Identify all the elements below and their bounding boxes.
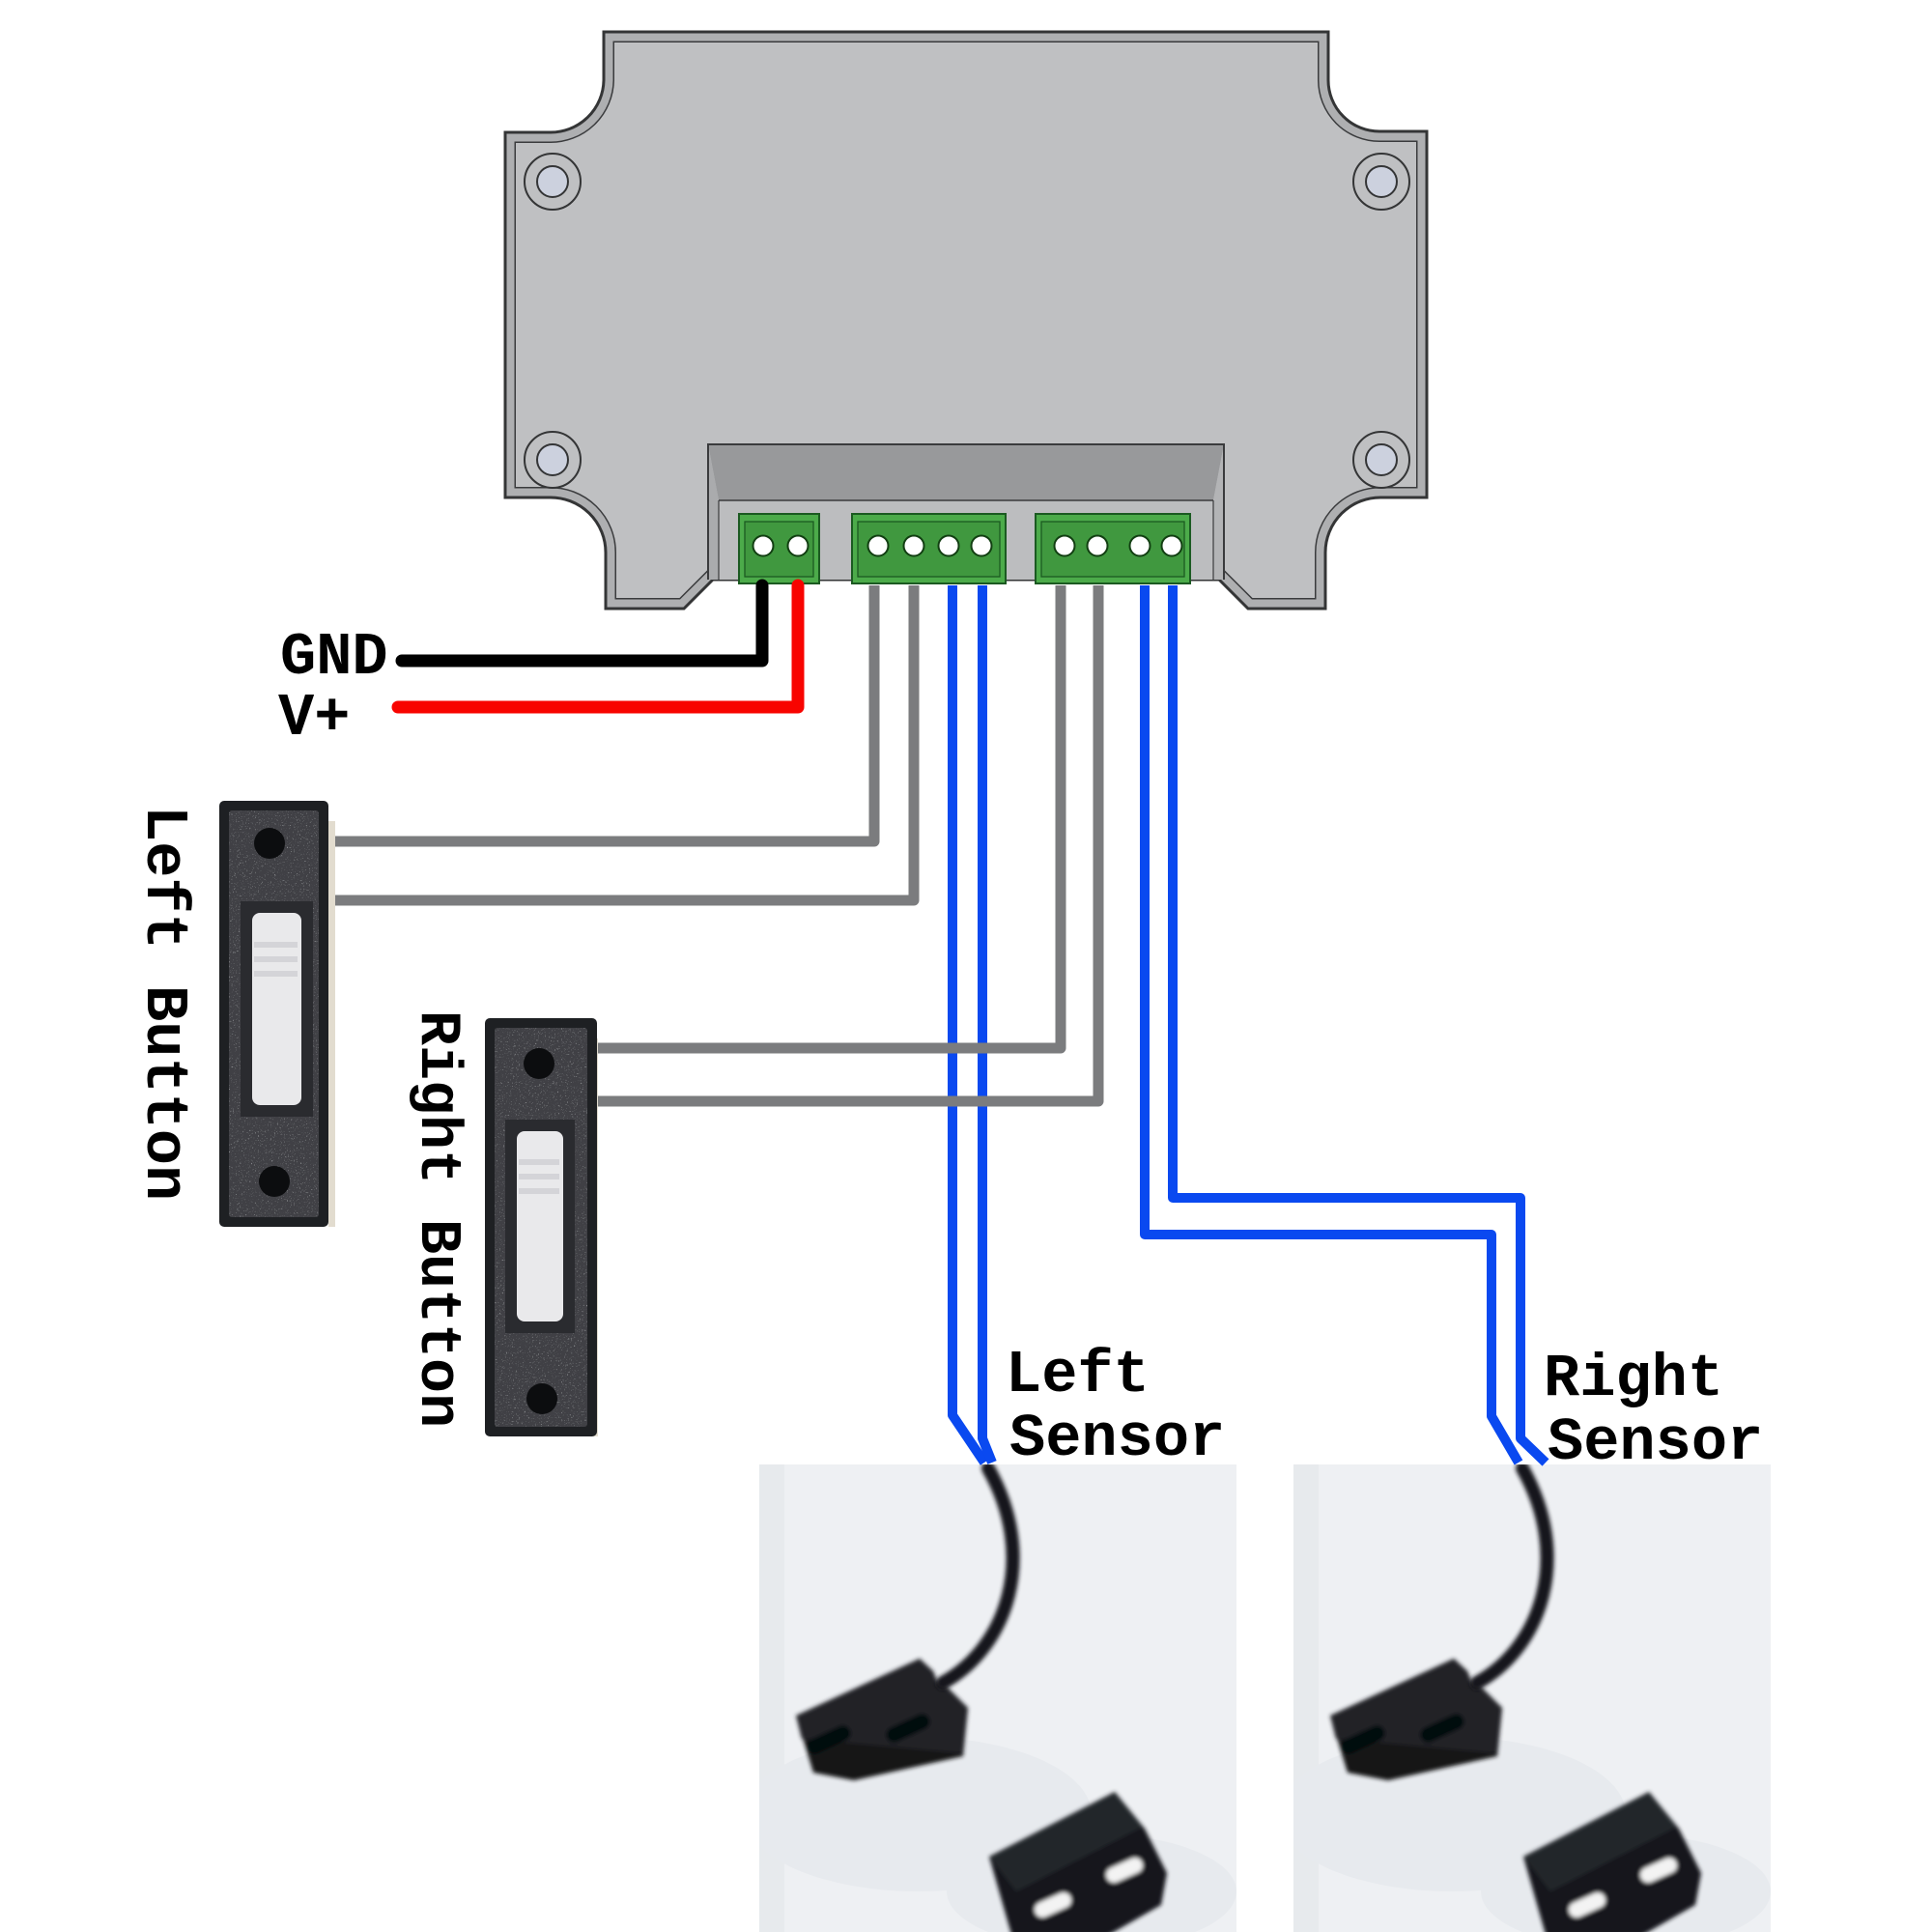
left button photo	[219, 801, 335, 1227]
left button screw bottom	[259, 1166, 290, 1197]
pin 2	[904, 536, 924, 556]
svg-text:Sensor: Sensor	[1009, 1405, 1225, 1473]
screw hole bottom-left	[525, 432, 581, 488]
terminal recess	[708, 444, 1224, 580]
pin 3	[1130, 536, 1151, 556]
right sensor cable	[1477, 1468, 1548, 1683]
wire GND (black)	[402, 585, 762, 661]
wire right sensor B (blue)	[1173, 585, 1546, 1463]
terminal block J3 (sensors, 4-pin)	[1036, 514, 1190, 583]
wire right sensor A (blue)	[1145, 585, 1519, 1463]
right sensor reed switch body	[1330, 1659, 1502, 1780]
pin 1	[1055, 536, 1075, 556]
wire left sensor A (blue)	[952, 585, 984, 1463]
svg-text:V+: V+	[278, 684, 350, 753]
wire V+ (red)	[398, 585, 798, 707]
right button rocker	[517, 1131, 563, 1321]
controller enclosure	[505, 32, 1427, 609]
pin 2	[1088, 536, 1108, 556]
left sensor cable	[943, 1468, 1013, 1683]
svg-text:Left Button: Left Button	[129, 806, 198, 1201]
left button screw top	[254, 828, 285, 859]
svg-text:Left: Left	[1006, 1341, 1150, 1409]
right button screw top	[524, 1048, 554, 1079]
pin 1 (GND)	[753, 536, 774, 556]
right sensor photo	[1278, 1464, 1771, 1932]
wire left sensor B (blue)	[982, 585, 992, 1463]
screw hole bottom-right	[1353, 432, 1409, 488]
svg-text:Right: Right	[1544, 1345, 1723, 1413]
svg-text:GND: GND	[280, 623, 388, 692]
svg-text:Sensor: Sensor	[1548, 1408, 1763, 1477]
screw hole top-right	[1353, 154, 1409, 210]
wire left button 1 (gray)	[327, 585, 874, 841]
right button screw bottom	[526, 1383, 557, 1414]
left sensor magnet bracket	[989, 1792, 1167, 1932]
terminal block J1 (power, 2-pin)	[739, 514, 819, 583]
wire right button 1 (gray)	[591, 585, 1061, 1048]
right button photo	[485, 1018, 598, 1436]
pin 2 (V+)	[788, 536, 809, 556]
pin 3	[939, 536, 959, 556]
pin 1	[868, 536, 889, 556]
pin 4	[1162, 536, 1182, 556]
left sensor reed switch body	[796, 1659, 968, 1780]
wire right button 2 (gray)	[591, 585, 1098, 1101]
left button rocker	[252, 913, 301, 1105]
terminal block J2 (buttons, 4-pin)	[852, 514, 1006, 583]
screw hole top-left	[525, 154, 581, 210]
svg-text:Right Button: Right Button	[404, 1010, 469, 1428]
pin 4	[972, 536, 992, 556]
wire left button 2 (gray)	[327, 585, 914, 900]
right sensor magnet bracket	[1523, 1792, 1701, 1932]
left sensor photo	[744, 1464, 1236, 1932]
